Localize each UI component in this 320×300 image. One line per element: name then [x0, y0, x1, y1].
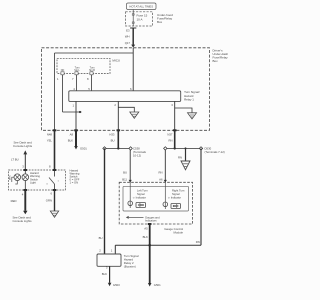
wire YEL N48 to hazard switch [54, 130, 56, 170]
ground G501 lower [148, 283, 161, 287]
wire BU H33 to C538 [117, 130, 119, 148]
wire branch from fuse feed to hazard switch feed [55, 52, 134, 54]
svg-text:B11: B11 [122, 177, 127, 181]
pin 4 hazard switch [11, 190, 33, 223]
turn signal/hazard relay 2 [97, 249, 139, 269]
wire RN N37 to D530 [174, 130, 176, 148]
svg-text:◇ Indicator: ◇ Indicator [168, 195, 181, 199]
wire RN to gauge module right [158, 150, 166, 183]
svg-text:YEL: YEL [47, 138, 53, 142]
svg-text:G503: G503 [113, 283, 120, 287]
svg-text:Signal: Signal [137, 192, 145, 196]
ground stub at D530 [178, 148, 190, 169]
svg-text:RN: RN [196, 240, 200, 244]
indicators inner box [123, 186, 189, 211]
hazard warning switch box [9, 170, 66, 190]
wire fuse feed to relay 1 pin 6 [132, 48, 134, 91]
ground triangle at relay 1 pin 2 [130, 112, 139, 118]
svg-text:Module: Module [174, 231, 184, 235]
svg-text:BLK: BLK [102, 272, 107, 276]
hazard warning switch label [70, 169, 80, 185]
svg-text:A5: A5 [144, 226, 148, 230]
svg-text:WH: WH [125, 35, 130, 39]
svg-text:H33: H33 [109, 132, 115, 136]
svg-text:Console Lights: Console Lights [13, 219, 33, 223]
gauge module ground pin A5 [143, 223, 152, 283]
svg-text:1 = ON: 1 = ON [70, 181, 79, 185]
svg-text:Light: Light [30, 181, 36, 185]
under-hood fuse/relay box [126, 12, 174, 26]
svg-text:E3: E3 [126, 29, 130, 33]
svg-text:RN: RN [168, 138, 172, 142]
svg-text:RN: RN [158, 170, 162, 174]
pin 1 relay 1, wire to junction [63, 101, 82, 130]
left turn signal indicator [128, 182, 148, 208]
wire BLK A8 to G501 [75, 130, 77, 146]
svg-text:Signal: Signal [172, 192, 180, 196]
wire MICU pin7 to relay pin4 [76, 75, 78, 91]
gauge control module box [119, 182, 192, 234]
connector pins switch box edges [24, 169, 57, 191]
turn signal/hazard relay 1 [69, 87, 200, 102]
wire RN D530 down to ground bus [200, 148, 202, 245]
svg-text:Console Lights: Console Lights [13, 144, 33, 148]
svg-text:N37: N37 [167, 132, 173, 136]
right turn signal indicator [163, 182, 185, 209]
driver's under-dash fuse/relay box [42, 48, 229, 131]
svg-text:BLK: BLK [68, 138, 73, 142]
wire BU to gauge module left [122, 150, 132, 183]
wire riser to N48 [54, 53, 56, 130]
connector pins bottom edge [53, 129, 177, 131]
wire MICU pin1 [62, 75, 64, 112]
svg-text:Box: Box [213, 59, 219, 63]
svg-text:Indicators: Indicators [145, 219, 157, 223]
svg-text:RED: RED [11, 199, 17, 203]
splice D530 (terminals 7-12) [164, 147, 225, 155]
svg-text:Box: Box [157, 20, 163, 24]
node HOT AT ALL TIMES [127, 3, 157, 10]
svg-text:BU: BU [123, 170, 127, 174]
ground G501 upper [74, 146, 78, 150]
gauges and indicators arrow [126, 215, 160, 222]
svg-text:10-12): 10-12) [133, 153, 141, 157]
ground bus to relay 2 [115, 244, 201, 254]
pin 3 relay 1, ground triangle [171, 101, 196, 130]
MICU [57, 58, 120, 81]
svg-text:Sig L: Sig L [74, 69, 80, 72]
svg-text:BU: BU [111, 138, 115, 142]
ground triangle at relay 1 pin 3 [188, 113, 197, 119]
svg-text:(Booster): (Booster) [124, 265, 136, 269]
svg-text:LT BU: LT BU [11, 158, 19, 162]
svg-text:Relay 1: Relay 1 [184, 98, 194, 102]
svg-text:GRN: GRN [46, 199, 52, 203]
svg-text:NO: NO [61, 69, 65, 72]
svg-text:A8: A8 [70, 132, 74, 136]
svg-text:◇ Indicator: ◇ Indicator [133, 195, 146, 199]
pin 6 hazard switch to ground [46, 190, 59, 217]
svg-text:Q17: Q17 [125, 41, 131, 45]
svg-text:Sig R: Sig R [89, 69, 95, 72]
hazard switch lamps [9, 170, 28, 190]
fuse F15 [132, 10, 147, 27]
svg-text:BLK: BLK [143, 235, 148, 239]
pin 2 relay 1, ground triangle [114, 101, 138, 130]
svg-text:G501: G501 [80, 147, 87, 151]
svg-text:A6: A6 [159, 177, 163, 181]
hazard switch contact [47, 170, 60, 190]
relay 2 pin 3 to G503 [102, 266, 120, 287]
svg-text:MRN: MRN [9, 175, 11, 180]
see dash and console lights upper [11, 141, 33, 170]
wire MICU pin8 to relay pin5 [91, 75, 93, 91]
svg-text:MICU: MICU [112, 59, 120, 63]
svg-text:Right Turn: Right Turn [172, 189, 185, 193]
svg-text:N48: N48 [47, 132, 53, 136]
wire BU to relay 2 pin 2 [99, 148, 105, 254]
wire fuse to under-dash box, pins E3/Q17 [125, 28, 137, 48]
svg-text:HOT AT ALL TIMES: HOT AT ALL TIMES [129, 5, 153, 9]
svg-text:(Terminals 7-12): (Terminals 7-12) [205, 150, 225, 154]
svg-text:Left Turn: Left Turn [137, 189, 148, 193]
svg-text:RN: RN [178, 156, 182, 160]
svg-text:G501: G501 [154, 283, 161, 287]
splice C538 (terminals 10-12) [103, 147, 147, 158]
svg-text:BU: BU [99, 236, 103, 240]
svg-text:10 A: 10 A [137, 17, 143, 21]
